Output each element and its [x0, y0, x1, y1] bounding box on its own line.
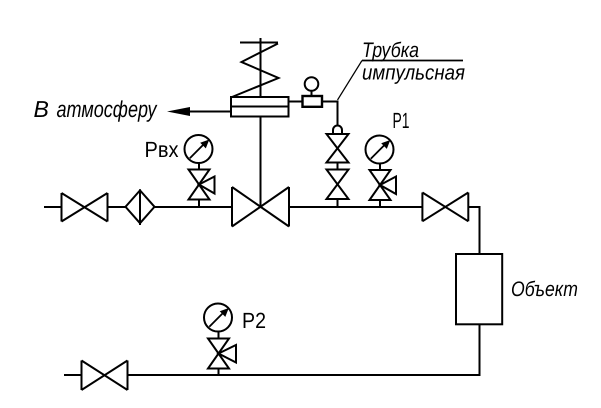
- svg-text:В: В: [34, 96, 49, 122]
- pressure regulator valve (main control valve): [232, 187, 289, 227]
- valve: outlet shutoff valve: [422, 193, 468, 222]
- svg-text:импульсная: импульсная: [362, 62, 465, 85]
- gauge Pвх (inlet pressure gauge): [185, 135, 213, 163]
- regulator actuator diaphragm chamber: [231, 97, 289, 117]
- label P2: [242, 308, 266, 333]
- label Трубка импульсная: [362, 39, 465, 85]
- object vessel box: [456, 254, 502, 324]
- svg-text:Объект: Объект: [511, 278, 578, 301]
- label Объект: [511, 278, 578, 301]
- svg-text:Трубка: Трубка: [362, 39, 419, 62]
- pipe: bottom line left stub: [64, 374, 82, 376]
- valve: inlet shutoff valve: [62, 193, 108, 222]
- label В атмосферу: [34, 96, 158, 122]
- impulse line cap fitting: [333, 126, 342, 135]
- svg-text:P1: P1: [393, 108, 410, 133]
- pipe: segment valve to filter: [108, 206, 126, 208]
- gauge P2: [204, 304, 232, 332]
- svg-text:P2: P2: [242, 308, 266, 333]
- pipe: object to bottom return line: [128, 325, 480, 376]
- vent arrow to atmosphere: [167, 107, 231, 116]
- pipe: segment filter to regulator valve: [155, 206, 233, 208]
- gauge P1: [366, 136, 394, 164]
- pipe: impulse valve to main line: [337, 199, 339, 206]
- pipe: impulse line from chamber to tee fitting: [289, 101, 303, 103]
- pipe: main line regulator to outlet valve: [289, 206, 422, 208]
- valve: bottom drain valve: [82, 361, 128, 391]
- pipe: main inlet line left stub: [44, 206, 62, 208]
- svg-text:Pвх: Pвх: [145, 137, 179, 162]
- valve: impulse line lower valve: [327, 170, 349, 200]
- impulse tee fitting with pilot knob: [303, 77, 323, 107]
- valve: three-way gauge valve for P1: [370, 164, 397, 207]
- valve: three-way gauge valve for P2: [208, 332, 236, 375]
- leader line for impulse tube label: [338, 61, 464, 101]
- label Pвх: [145, 137, 179, 162]
- valve: three-way gauge valve for Pвх: [189, 163, 215, 206]
- pipe: impulse line fitting to corner and down: [322, 102, 338, 126]
- label P1: [393, 108, 410, 133]
- filter F (diamond strainer): [126, 189, 155, 225]
- svg-text:атмосферу: атмосферу: [57, 96, 158, 122]
- regulator actuator stem: [260, 117, 262, 208]
- valve: impulse line upper valve: [327, 134, 349, 163]
- pipe: outlet valve to object corner: [468, 207, 479, 254]
- pipe: impulse connector between valves: [337, 163, 339, 170]
- regulator spring: [232, 38, 279, 97]
